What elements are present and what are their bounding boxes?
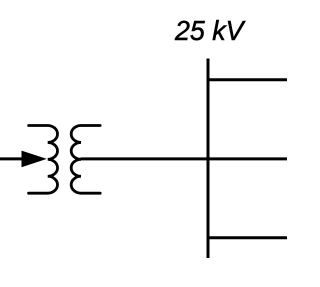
- arrow incoming supply arrowhead: [22, 151, 47, 168]
- wire feeder 3 (bottom): [207, 236, 287, 239]
- svg-text:25 kV: 25 kV: [174, 15, 246, 46]
- transformer T1 secondary winding (right coil): [71, 126, 100, 194]
- bus 25 kV vertical busbar: [207, 59, 210, 259]
- wire incoming line (arrow shaft): [0, 157, 23, 160]
- transformer T1 primary winding (left coil): [29, 126, 58, 194]
- wire transformer secondary to bus and feeder 2 (middle): [81, 157, 288, 160]
- wire feeder 1 (top): [207, 78, 287, 81]
